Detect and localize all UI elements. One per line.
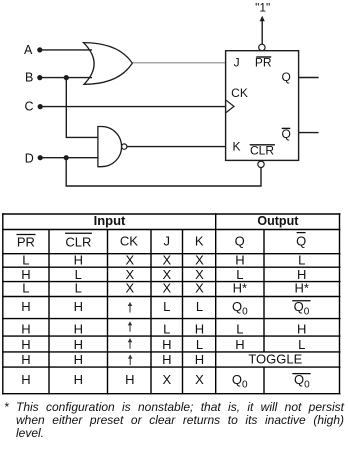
- wire B to OR gate: [41, 77, 92, 79]
- svg-text:H: H: [74, 337, 83, 352]
- table left border: [2, 213, 4, 394]
- svg-text:H: H: [235, 337, 244, 352]
- svg-text:L: L: [236, 267, 243, 282]
- wire D branch to CLR bubble: [66, 158, 261, 186]
- wire NAND output to K: [127, 146, 226, 148]
- svg-text:H: H: [74, 253, 83, 268]
- svg-text:TOGGLE: TOGGLE: [248, 352, 302, 367]
- svg-text:H: H: [74, 352, 83, 367]
- svg-text:L: L: [22, 281, 29, 296]
- svg-text:J: J: [164, 234, 171, 249]
- svg-text:L: L: [298, 337, 305, 352]
- svg-text:L: L: [196, 337, 203, 352]
- svg-text:H: H: [21, 299, 30, 314]
- Qbar overline: [282, 127, 291, 129]
- svg-text:X: X: [125, 267, 134, 282]
- column border CK/J: [150, 230, 152, 395]
- svg-text:Q0: Q0: [294, 372, 310, 391]
- svg-text:L: L: [22, 253, 29, 268]
- wire OR output to J (gray): [132, 62, 226, 64]
- column border PR/CLR: [48, 230, 50, 395]
- svg-text:H: H: [21, 352, 30, 367]
- node B terminal dot: [37, 75, 42, 80]
- PR bubble: [259, 44, 265, 50]
- svg-text:L: L: [163, 299, 170, 314]
- svg-text:Q: Q: [235, 234, 245, 249]
- row line 1: [2, 266, 340, 268]
- svg-text:H: H: [21, 267, 30, 282]
- CLR bubble: [258, 161, 264, 167]
- svg-text:H: H: [21, 322, 30, 337]
- svg-text:L: L: [298, 253, 305, 268]
- table bottom border: [2, 393, 340, 395]
- svg-text:H: H: [195, 322, 204, 337]
- svg-text:X: X: [162, 253, 171, 268]
- svg-text:L: L: [163, 322, 170, 337]
- table top border: [2, 213, 340, 215]
- row line 7: [2, 366, 340, 368]
- row line 3: [2, 296, 340, 298]
- svg-text:H: H: [297, 267, 306, 282]
- svg-text:Q: Q: [296, 234, 306, 249]
- row 8 Q0bar overline: [292, 373, 310, 375]
- truth table grid: [2, 213, 340, 394]
- svg-text:D: D: [25, 151, 34, 165]
- svg-text:A: A: [24, 43, 33, 57]
- column border J/K: [182, 230, 184, 395]
- column border Input/Output: [215, 213, 217, 394]
- junction dot D branch: [64, 155, 69, 160]
- svg-text:H*: H*: [294, 281, 308, 296]
- wire Q output: [299, 77, 319, 79]
- svg-text:X: X: [162, 267, 171, 282]
- svg-text:H: H: [74, 299, 83, 314]
- svg-text:"1": "1": [255, 0, 270, 14]
- node D terminal dot: [38, 155, 43, 160]
- PR overline: [256, 56, 271, 58]
- line below column headers: [2, 253, 340, 255]
- wire B branch vertical: [66, 78, 98, 138]
- svg-text:J: J: [234, 56, 240, 70]
- svg-text:L: L: [75, 281, 82, 296]
- svg-text:C: C: [24, 99, 33, 113]
- column border CLR/CK: [107, 230, 109, 395]
- svg-text:X: X: [125, 281, 134, 296]
- svg-text:X: X: [195, 253, 204, 268]
- svg-text:X: X: [195, 372, 204, 387]
- svg-text:Q0: Q0: [232, 299, 248, 318]
- row line 2: [2, 281, 340, 283]
- svg-text:Input: Input: [94, 213, 126, 228]
- svg-text:Q0: Q0: [294, 299, 310, 318]
- svg-text:H: H: [125, 372, 134, 387]
- row line 5: [2, 335, 340, 337]
- svg-text:Q: Q: [282, 70, 291, 84]
- svg-text:H: H: [74, 372, 83, 387]
- table right border: [339, 213, 341, 394]
- clock arrow row 5: [129, 322, 131, 332]
- clock arrow row 7: [129, 355, 131, 365]
- svg-text:X: X: [162, 372, 171, 387]
- svg-text:X: X: [125, 253, 134, 268]
- wire Qbar output: [299, 132, 319, 134]
- svg-text:H: H: [297, 322, 306, 337]
- svg-text:H: H: [235, 253, 244, 268]
- row line 4: [2, 318, 340, 320]
- svg-text:H: H: [162, 352, 171, 367]
- svg-text:L: L: [75, 267, 82, 282]
- svg-text:K: K: [232, 140, 240, 154]
- wire D to NAND gate: [41, 157, 98, 159]
- svg-text:H: H: [21, 337, 30, 352]
- OR gate G1: [83, 43, 132, 85]
- column border Q/Qbar upper: [263, 230, 265, 352]
- header PR overline: [17, 234, 36, 236]
- svg-text:H: H: [21, 372, 30, 387]
- svg-text:PR: PR: [17, 234, 35, 249]
- svg-text:CLR: CLR: [65, 234, 91, 249]
- row 4 Q0bar overline: [292, 300, 310, 302]
- header CLR overline: [65, 232, 92, 234]
- svg-text:H: H: [74, 322, 83, 337]
- svg-text:H: H: [195, 352, 204, 367]
- node C terminal dot: [38, 104, 43, 109]
- svg-text:X: X: [162, 281, 171, 296]
- node A terminal dot: [37, 47, 42, 52]
- svg-text:H: H: [162, 337, 171, 352]
- svg-text:CK: CK: [120, 234, 138, 249]
- footnote: [0, 401, 348, 440]
- wire C to CK input: [41, 106, 226, 108]
- CLR overline: [250, 144, 275, 146]
- svg-text:Output: Output: [257, 214, 299, 228]
- flip-flop U1 box: [226, 51, 299, 161]
- clock edge triangle: [226, 100, 234, 112]
- svg-text:Q0: Q0: [232, 372, 248, 391]
- arrowhead to "1": [260, 16, 265, 21]
- svg-text:L: L: [196, 299, 203, 314]
- row line 6: [2, 351, 340, 353]
- clock arrow row 4: [129, 302, 131, 312]
- svg-text:B: B: [25, 70, 33, 84]
- wire A to OR gate: [41, 49, 92, 51]
- svg-text:Q: Q: [282, 127, 291, 141]
- NAND gate G2 body: [98, 127, 122, 167]
- svg-text:CLR: CLR: [250, 144, 274, 158]
- svg-text:X: X: [195, 267, 204, 282]
- svg-text:CK: CK: [231, 86, 248, 100]
- wire PR pull-up vertical: [261, 20, 263, 44]
- column border Q/Qbar lower: [263, 367, 265, 394]
- clock arrow row 6: [129, 339, 131, 349]
- svg-text:L: L: [236, 322, 243, 337]
- svg-text:K: K: [195, 234, 204, 249]
- svg-text:H*: H*: [233, 281, 247, 296]
- header Qbar overline: [297, 232, 306, 234]
- svg-text:X: X: [195, 281, 204, 296]
- line below Input/Output header: [2, 229, 340, 231]
- NAND gate G2 bubble: [122, 144, 127, 149]
- junction dot B branch: [64, 75, 69, 80]
